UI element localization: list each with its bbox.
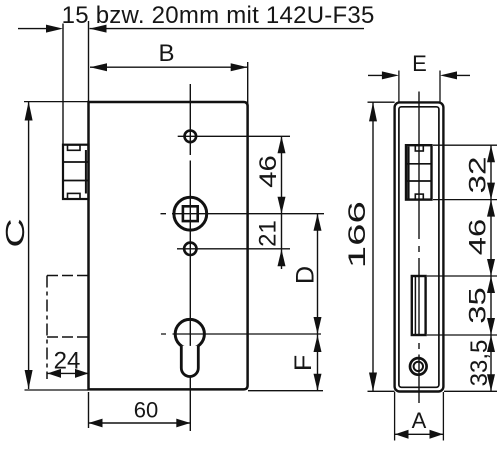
svg-text:60: 60 (134, 398, 158, 423)
svg-text:32: 32 (465, 157, 492, 194)
svg-text:46: 46 (465, 219, 492, 256)
svg-text:F: F (290, 355, 317, 372)
svg-text:46: 46 (255, 155, 282, 188)
svg-text:33,5: 33,5 (466, 340, 493, 387)
svg-text:15 bzw. 20mm mit 142U-F35: 15 bzw. 20mm mit 142U-F35 (62, 2, 375, 29)
svg-text:E: E (412, 51, 427, 76)
svg-text:21: 21 (255, 220, 282, 247)
svg-text:A: A (412, 408, 427, 433)
svg-text:35: 35 (465, 287, 492, 324)
svg-text:B: B (158, 40, 174, 67)
svg-text:C: C (0, 218, 30, 248)
svg-text:166: 166 (344, 201, 371, 268)
svg-text:24: 24 (54, 348, 81, 375)
svg-text:D: D (292, 266, 320, 284)
